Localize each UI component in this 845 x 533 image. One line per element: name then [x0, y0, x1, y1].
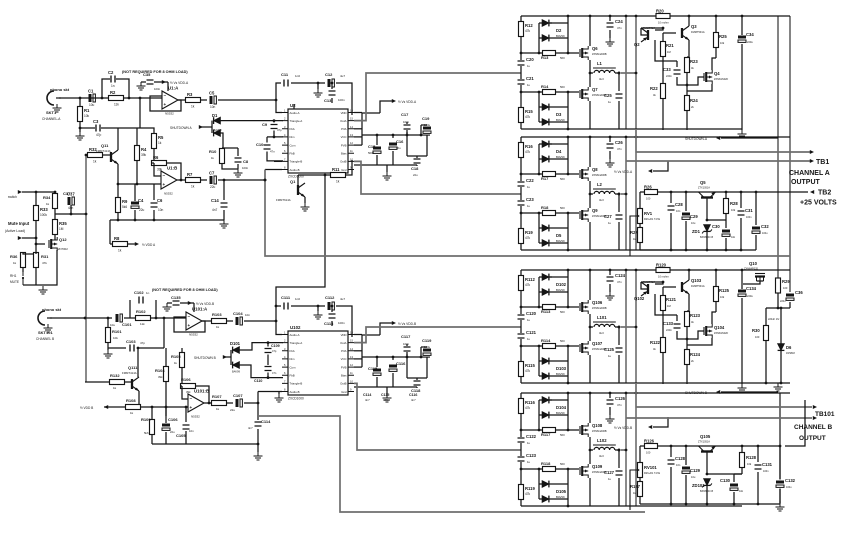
svg-text:4n7: 4n7	[365, 398, 370, 402]
wire bridge verticals	[625, 393, 627, 506]
svg-text:R35: R35	[59, 221, 67, 226]
svg-text:R120: R120	[656, 263, 667, 268]
svg-text:OutB: OutB	[340, 160, 347, 164]
svg-text:SHUTDOWN B: SHUTDOWN B	[194, 356, 216, 360]
svg-text:CHANNEL B: CHANNEL B	[794, 424, 832, 431]
resistor R120	[656, 268, 670, 273]
svg-text:4n7: 4n7	[411, 398, 416, 402]
svg-text:VDD: VDD	[341, 111, 347, 115]
svg-text:C29: C29	[690, 214, 698, 219]
ground	[606, 38, 615, 46]
svg-text:RV101: RV101	[644, 465, 657, 470]
svg-text:R124: R124	[690, 352, 701, 357]
ground	[254, 452, 263, 460]
svg-text:ZXMN4A06B: ZXMN4A06B	[592, 53, 607, 56]
svg-text:+25 VOLTS: +25 VOLTS	[800, 200, 837, 207]
svg-text:100k: 100k	[40, 213, 47, 217]
capacitor C130	[730, 483, 738, 492]
wire to U102 Audio-A	[244, 321, 282, 335]
resistor R112	[519, 276, 524, 291]
svg-text:BAV99: BAV99	[556, 155, 565, 159]
resistor R105	[180, 353, 185, 368]
svg-text:C13: C13	[324, 98, 332, 103]
resistor R106	[181, 384, 196, 389]
node 1/2 Vs VDD-A	[154, 81, 168, 83]
svg-text:47k: 47k	[525, 492, 531, 496]
svg-text:R36: R36	[10, 254, 18, 259]
zener diode ZD1	[704, 225, 711, 232]
svg-text:U1:A: U1:A	[168, 86, 179, 91]
capacitor C111	[283, 302, 289, 311]
svg-text:C126: C126	[615, 396, 626, 401]
svg-text:C19: C19	[422, 116, 430, 121]
diode D6	[780, 308, 782, 344]
resistor R119	[519, 485, 524, 500]
wire regulator top rail	[640, 191, 756, 193]
svg-text:47n: 47n	[272, 371, 277, 375]
svg-text:10u: 10u	[691, 221, 696, 225]
svg-text:10u: 10u	[396, 146, 401, 150]
svg-text:BAV99: BAV99	[556, 495, 565, 499]
wire bridge left column	[520, 393, 522, 506]
svg-text:Q6: Q6	[592, 46, 598, 51]
node switch input	[18, 190, 22, 194]
svg-text:FMMT614A: FMMT614A	[276, 198, 291, 202]
svg-text:100: 100	[646, 451, 651, 455]
svg-text:C114: C114	[363, 393, 371, 397]
svg-text:U101:B: U101:B	[194, 389, 209, 394]
transistor Q12 mosfet	[48, 240, 50, 248]
capacitor C110	[264, 366, 273, 372]
svg-text:C5: C5	[209, 91, 215, 96]
svg-text:R12: R12	[525, 23, 533, 28]
svg-text:47n: 47n	[617, 26, 622, 30]
ground	[167, 302, 172, 304]
svg-text:C11: C11	[281, 72, 289, 77]
transistor Q5	[701, 196, 713, 198]
ground	[234, 169, 243, 177]
svg-text:1u: 1u	[527, 185, 531, 189]
wire output A- to TB1	[621, 193, 626, 195]
capacitor C114	[257, 403, 259, 420]
resistor R29	[776, 278, 781, 293]
svg-text:Triangle-A: Triangle-A	[290, 119, 303, 123]
svg-text:ZTX1051A: ZTX1051A	[698, 441, 710, 444]
transistor Q1	[265, 169, 282, 171]
svg-text:BAV99: BAV99	[556, 34, 565, 38]
svg-text:Triangle-A: Triangle-A	[290, 341, 303, 345]
svg-text:R104: R104	[155, 368, 165, 373]
svg-text:Q104: Q104	[714, 325, 725, 330]
capacitor C132	[776, 480, 784, 489]
wire supply riser	[785, 400, 805, 446]
capacitor C27	[615, 214, 624, 220]
svg-text:C135: C135	[171, 295, 181, 300]
capacitor C36	[786, 293, 794, 302]
resistor R117	[521, 429, 579, 431]
diode pair D4	[538, 144, 540, 174]
svg-text:FMMT591A: FMMT591A	[691, 284, 705, 288]
svg-text:C3: C3	[93, 119, 99, 124]
svg-text:R127: R127	[630, 484, 641, 489]
svg-text:D101: D101	[230, 341, 241, 346]
resistor R18	[521, 212, 579, 214]
svg-text:switch: switch	[8, 195, 17, 199]
resistor R11	[331, 173, 346, 178]
svg-text:100: 100	[755, 335, 760, 339]
svg-text:C34: C34	[746, 32, 754, 37]
svg-text:10n: 10n	[676, 463, 681, 467]
svg-text:R1: R1	[84, 108, 90, 113]
svg-text:10n: 10n	[189, 429, 194, 433]
svg-text:100n: 100n	[403, 120, 410, 124]
connector SKT101 phono jack channel B	[38, 311, 45, 325]
resistor R12	[519, 22, 524, 37]
resistor R5	[137, 128, 154, 134]
svg-text:½ Vs VDD-B: ½ Vs VDD-B	[398, 322, 416, 326]
transistor Q105	[701, 450, 713, 452]
svg-text:100n: 100n	[154, 87, 161, 91]
capacitor C107	[226, 402, 233, 404]
ground	[317, 306, 319, 311]
svg-text:22u: 22u	[139, 208, 145, 212]
svg-text:22u: 22u	[170, 430, 175, 434]
resistor R125	[714, 287, 719, 302]
svg-text:100u: 100u	[786, 486, 792, 489]
capacitor C37	[67, 197, 76, 205]
resistor R4	[135, 146, 140, 161]
wire feedback bus A	[265, 170, 790, 257]
capacitor C120	[517, 314, 526, 320]
resistor R5 lower lead	[153, 149, 155, 163]
capacitor C19	[423, 126, 431, 135]
transistor Q106 mosfet	[579, 303, 581, 311]
svg-text:4u7: 4u7	[340, 297, 345, 301]
svg-text:C131: C131	[762, 462, 773, 467]
capacitor C21	[517, 79, 526, 85]
capacitor C1	[88, 94, 97, 102]
wire OutB to bridge B bottom	[354, 383, 521, 450]
svg-text:47n: 47n	[270, 150, 275, 154]
svg-text:SKT1: SKT1	[46, 110, 57, 115]
diode pair D3	[538, 92, 540, 122]
svg-text:R22: R22	[650, 86, 658, 91]
wire bridge left column	[520, 16, 522, 129]
svg-text:22u: 22u	[210, 185, 216, 189]
svg-text:R23: R23	[690, 59, 698, 64]
svg-text:C103: C103	[126, 339, 136, 344]
resistor R126	[645, 444, 658, 449]
capacitor C28	[667, 205, 676, 211]
svg-text:R27: R27	[630, 230, 638, 235]
transistor Q108 mosfet	[579, 426, 581, 434]
svg-text:47n: 47n	[617, 403, 622, 407]
svg-text:C6: C6	[157, 198, 163, 203]
resistor R27	[639, 223, 641, 228]
capacitor C119	[423, 348, 431, 357]
resistor R6 feedback	[152, 161, 167, 166]
svg-text:R121: R121	[666, 297, 677, 302]
svg-text:C22: C22	[526, 178, 534, 183]
resistor R118	[521, 468, 579, 470]
svg-text:L102: L102	[597, 438, 607, 443]
svg-text:R21: R21	[666, 43, 674, 48]
svg-text:C115: C115	[381, 393, 389, 397]
transistor Q3	[681, 28, 683, 38]
wire base node	[707, 219, 726, 221]
ground	[774, 383, 783, 391]
wire	[36, 284, 43, 286]
resistor R21	[661, 42, 666, 57]
wire	[291, 82, 325, 84]
svg-text:560: 560	[560, 85, 565, 89]
svg-text:39k: 39k	[158, 375, 163, 379]
svg-text:Dim: Dim	[290, 135, 296, 139]
svg-text:100n: 100n	[242, 166, 249, 170]
wire output B+ to TB101	[621, 326, 636, 328]
svg-text:1u: 1u	[527, 204, 531, 208]
svg-text:R18: R18	[541, 205, 549, 210]
svg-text:RV1: RV1	[644, 211, 653, 216]
svg-text:100n: 100n	[403, 342, 410, 346]
capacitor C15	[373, 146, 381, 155]
svg-text:ZXM61N02F: ZXM61N02F	[714, 332, 729, 335]
svg-text:220uF 1hr: 220uF 1hr	[768, 318, 780, 321]
svg-text:D5: D5	[556, 233, 562, 238]
wire U1:B inputs	[154, 163, 161, 176]
resistor R101	[107, 318, 109, 328]
ground	[79, 128, 81, 132]
svg-text:N5532: N5532	[189, 333, 198, 337]
capacitor C35	[146, 79, 155, 85]
svg-text:1u: 1u	[608, 354, 612, 358]
svg-text:C106: C106	[168, 417, 178, 422]
svg-text:Q9: Q9	[592, 208, 598, 213]
wire	[50, 317, 112, 319]
capacitor C123	[517, 456, 526, 462]
wire bridge bottom rail	[521, 249, 742, 251]
wire OutB to bridge A bottom	[354, 161, 521, 194]
node SHUTDOWN B	[225, 356, 231, 358]
svg-text:47n: 47n	[617, 147, 622, 151]
svg-text:C10: C10	[256, 142, 264, 147]
svg-text:C30: C30	[712, 224, 720, 229]
capacitor C106	[162, 423, 170, 432]
svg-text:R11: R11	[332, 167, 340, 172]
svg-text:Q11: Q11	[101, 143, 109, 148]
svg-text:C109: C109	[271, 344, 280, 348]
capacitor C16	[389, 142, 397, 151]
svg-text:−: −	[190, 396, 193, 401]
resistor R22	[661, 84, 666, 99]
resistor R121	[661, 296, 666, 311]
wire U102 right pin bus	[354, 334, 362, 336]
wire bridge verticals	[625, 16, 627, 129]
svg-text:CHANNEL A: CHANNEL A	[789, 170, 830, 177]
capacitor C12	[327, 79, 336, 87]
svg-text:C129: C129	[690, 468, 701, 473]
svg-text:10u: 10u	[691, 475, 696, 479]
svg-text:½ VDD A: ½ VDD A	[142, 243, 156, 247]
svg-text:C35: C35	[143, 72, 151, 77]
svg-text:phono skt: phono skt	[42, 307, 62, 312]
svg-text:100n: 100n	[746, 216, 752, 219]
svg-text:1u: 1u	[527, 83, 531, 87]
resistor R7	[186, 178, 201, 183]
transistor Q4 mosfet	[703, 73, 705, 81]
resistor R108	[126, 405, 141, 410]
svg-text:10k: 10k	[747, 462, 752, 466]
resistor R30	[765, 308, 767, 326]
svg-text:C8: C8	[243, 159, 249, 164]
connector SKT1 phono jack channel A	[47, 91, 54, 105]
svg-text:Q111: Q111	[128, 365, 138, 370]
svg-text:R101: R101	[112, 329, 122, 334]
svg-text:BAV99: BAV99	[556, 372, 565, 376]
svg-text:10k: 10k	[720, 41, 725, 45]
svg-text:R118: R118	[541, 461, 551, 466]
svg-text:1k: 1k	[216, 407, 220, 411]
resistor R19	[519, 229, 524, 244]
ground	[104, 350, 113, 358]
svg-text:C111: C111	[281, 295, 291, 300]
svg-text:OutB: OutB	[340, 382, 347, 386]
wire regulator top rail	[640, 445, 780, 447]
svg-text:22u: 22u	[413, 173, 418, 177]
svg-text:10k: 10k	[113, 336, 118, 340]
svg-text:N5532: N5532	[164, 192, 173, 196]
svg-text:R26+R1 74.5k: R26+R1 74.5k	[644, 218, 661, 221]
svg-text:OutA: OutA	[340, 341, 347, 345]
svg-text:47k: 47k	[525, 115, 531, 119]
svg-text:47k: 47k	[525, 29, 531, 33]
transistor Q10 mosfet	[755, 273, 765, 275]
svg-text:Triangle-B: Triangle-B	[290, 382, 303, 386]
wire feedback U1:A	[150, 96, 181, 111]
svg-text:R125: R125	[719, 288, 730, 293]
svg-text:PVA: PVA	[341, 349, 347, 353]
svg-text:FMMT414A: FMMT414A	[96, 149, 111, 153]
svg-text:1k: 1k	[191, 105, 195, 109]
svg-text:D104: D104	[556, 405, 567, 410]
wire oscillator sync A to B	[276, 175, 325, 306]
svg-text:10 mohm: 10 mohm	[658, 275, 669, 279]
capacitor C115	[373, 368, 381, 377]
resistor R31	[34, 253, 39, 268]
ground	[738, 130, 747, 138]
wire Audio-B pin link	[258, 391, 282, 393]
wire ground rail	[377, 164, 417, 166]
svg-text:1n: 1n	[146, 291, 150, 295]
terminal TB101	[813, 405, 817, 409]
capacitor C32	[752, 226, 760, 235]
resistor R128	[740, 453, 745, 468]
capacitor C9	[270, 124, 279, 130]
ground	[606, 159, 615, 167]
svg-text:Q7: Q7	[592, 87, 598, 92]
svg-text:22u: 22u	[230, 408, 235, 412]
svg-text:FbB: FbB	[290, 152, 295, 156]
svg-text:47p: 47p	[277, 128, 282, 132]
svg-text:R19: R19	[525, 230, 533, 235]
svg-text:10k: 10k	[84, 114, 90, 118]
capacitor C113	[331, 306, 333, 312]
svg-text:½ Vs VDD-B: ½ Vs VDD-B	[196, 302, 214, 306]
svg-text:ZXCD1000: ZXCD1000	[288, 397, 304, 401]
svg-text:TB101: TB101	[815, 411, 835, 418]
svg-text:C33: C33	[663, 67, 671, 72]
svg-text:Q4: Q4	[714, 71, 720, 76]
node 1/2 Vs VDD-B	[180, 302, 194, 304]
svg-text:44n: 44n	[739, 490, 744, 493]
op-amp U1:A	[162, 91, 178, 109]
capacitor C5	[200, 99, 207, 101]
svg-text:10u: 10u	[110, 323, 115, 327]
svg-text:R8: R8	[114, 236, 120, 241]
wire	[137, 348, 139, 377]
wire OutA to bridge A top	[354, 73, 521, 121]
svg-text:R25: R25	[719, 34, 727, 39]
svg-text:C121: C121	[526, 330, 537, 335]
svg-text:R132: R132	[110, 373, 120, 378]
svg-text:C123: C123	[526, 453, 537, 458]
IC U102 ZXCD1000	[288, 331, 348, 395]
svg-text:100: 100	[646, 197, 651, 201]
zener diode ZD101	[704, 479, 711, 486]
svg-text:L2: L2	[597, 182, 603, 187]
svg-text:Q10: Q10	[749, 261, 758, 266]
svg-text:phono skt: phono skt	[50, 87, 70, 92]
svg-text:R123: R123	[690, 313, 701, 318]
ground	[383, 394, 392, 402]
capacitor C127	[615, 470, 624, 476]
svg-text:Audio-B: Audio-B	[290, 168, 300, 172]
svg-text:OUTPUT: OUTPUT	[791, 179, 821, 186]
svg-text:CHANNEL-A: CHANNEL-A	[42, 117, 61, 121]
svg-text:RH1: RH1	[10, 274, 17, 278]
svg-text:1k: 1k	[216, 325, 220, 329]
wire bridge bottom rail	[521, 382, 742, 384]
svg-text:VCC: VCC	[341, 357, 347, 361]
inductor L2	[590, 193, 593, 195]
wire	[218, 179, 265, 181]
svg-text:1n0: 1n0	[295, 74, 300, 78]
resistor R25	[714, 33, 719, 48]
svg-text:C117: C117	[401, 334, 411, 339]
svg-text:ZXM61N02F: ZXM61N02F	[714, 78, 729, 81]
wire feedback to regulator B	[258, 416, 645, 512]
ground	[317, 83, 319, 89]
svg-text:39k: 39k	[141, 153, 147, 157]
svg-text:560: 560	[560, 56, 565, 60]
capacitor C101	[115, 314, 124, 322]
ground	[39, 286, 48, 294]
resistor R114	[521, 345, 579, 347]
node SHUTDOWN A	[201, 126, 212, 128]
svg-text:560: 560	[560, 433, 565, 437]
svg-text:R5: R5	[158, 135, 164, 140]
transistor Q6 mosfet	[579, 49, 581, 57]
svg-text:1u: 1u	[527, 318, 531, 322]
svg-text:Com: Com	[290, 365, 297, 369]
svg-text:C130: C130	[720, 478, 731, 483]
svg-text:Q3: Q3	[691, 24, 697, 29]
svg-text:C114: C114	[261, 419, 271, 424]
svg-text:1u: 1u	[527, 64, 531, 68]
svg-text:Gnd: Gnd	[341, 168, 347, 172]
resistor R34	[53, 194, 58, 209]
wire	[291, 305, 325, 307]
